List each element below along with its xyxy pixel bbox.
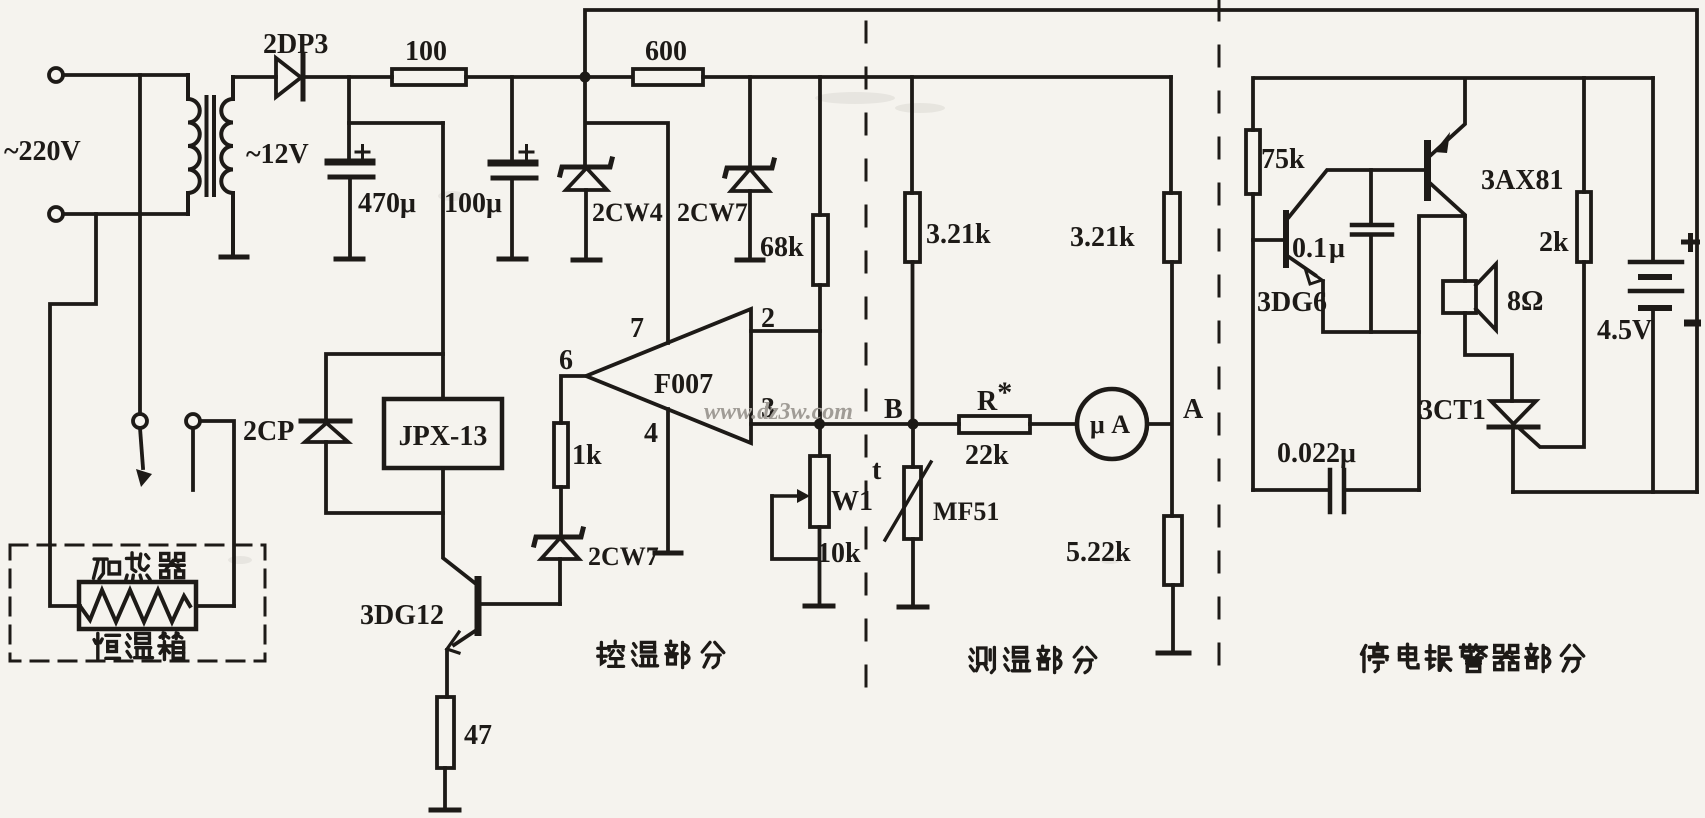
wire T1 to transformer primary top bbox=[63, 73, 188, 77]
svg-text:3DG12: 3DG12 bbox=[360, 600, 444, 631]
svg-text:2DP3: 2DP3 bbox=[263, 29, 328, 60]
wire speaker to SCR anode bbox=[1465, 313, 1512, 401]
transformer T secondary winding bbox=[221, 77, 233, 254]
capacitor C1 470u positive plate bbox=[328, 159, 372, 166]
resistor R8 3.21k body bbox=[1164, 193, 1180, 262]
pin3 output wire to node B bbox=[751, 422, 913, 426]
svg-text:4: 4 bbox=[644, 418, 658, 449]
label 恒温箱 thermostat box bbox=[94, 633, 119, 658]
thyristor D6 3CT1 body bbox=[1491, 401, 1536, 424]
resistor R6 3.21k body bbox=[905, 193, 920, 262]
pin4 supply wire bbox=[666, 409, 670, 552]
wire secondary top to diode bbox=[233, 75, 276, 79]
battery plus sign bbox=[1681, 233, 1700, 252]
label 控温部分 temperature control section bbox=[598, 641, 624, 666]
ground under 5.22k bbox=[1158, 651, 1189, 656]
zener D3 2CW7 body bbox=[731, 169, 769, 191]
wire relay to 3DG12 collector bbox=[443, 468, 476, 584]
wire 3.21k right through node A to 5.22k bbox=[1170, 262, 1174, 516]
transistor Q1 3DG12 base bar bbox=[475, 576, 482, 636]
svg-text:3CT1: 3CT1 bbox=[1419, 395, 1486, 426]
svg-text:JPX-13: JPX-13 bbox=[399, 421, 488, 452]
W1 wiper loop wire bbox=[772, 496, 819, 559]
C1 plus sign bbox=[356, 146, 369, 159]
svg-text:F007: F007 bbox=[654, 369, 713, 400]
capacitor C3 0.1u bottom plate bbox=[1352, 232, 1392, 237]
transformer core bars bbox=[207, 97, 215, 195]
relay coil line from +12V branch bbox=[441, 123, 445, 399]
svg-text:600: 600 bbox=[645, 36, 687, 67]
pin6 wire to 1k bbox=[561, 376, 586, 423]
ground under W1 bbox=[805, 604, 833, 609]
resistor R9 5.22k body bbox=[1164, 516, 1182, 585]
svg-text:3.21k: 3.21k bbox=[1070, 222, 1135, 253]
wire 68k down through pin2 node to W1 bbox=[818, 285, 822, 456]
wire T2 to transformer primary bottom bbox=[63, 212, 188, 216]
svg-text:2: 2 bbox=[761, 303, 775, 334]
svg-text:100μ: 100μ bbox=[444, 188, 502, 219]
svg-text:10k: 10k bbox=[817, 538, 861, 569]
wire battery minus to bottom rail bbox=[1651, 311, 1655, 492]
wire rail corner down to 3.21k right bbox=[1169, 77, 1173, 193]
wire node B to R* bbox=[913, 422, 959, 426]
Q2 emitter wire down bbox=[1323, 281, 1419, 332]
svg-text:3.21k: 3.21k bbox=[926, 219, 991, 250]
Q2 collector wire bbox=[1289, 170, 1424, 217]
resistor R4 47 body bbox=[437, 697, 454, 768]
wire 2CW4 to ground bbox=[584, 190, 588, 258]
op-amp U1 F007 triangle bbox=[586, 309, 751, 443]
svg-text:W1: W1 bbox=[831, 486, 873, 517]
svg-text:A: A bbox=[1183, 394, 1204, 425]
Q1 emitter with arrow bbox=[454, 629, 478, 645]
wire rail down to 3.21k left bbox=[910, 77, 914, 193]
wire C2 to ground bbox=[510, 181, 514, 257]
wire node B down to thermistor bbox=[911, 424, 915, 467]
svg-text:7: 7 bbox=[630, 313, 644, 344]
label 停电报警器部分 power failure alarm section bbox=[1361, 644, 1387, 672]
wire 100 to 100u junction bbox=[466, 75, 630, 79]
terminal T1 (~220V top) bbox=[49, 68, 63, 82]
resistor R11 2k body bbox=[1577, 192, 1591, 262]
svg-text:8Ω: 8Ω bbox=[1507, 286, 1543, 317]
speaker SP 8ohm box bbox=[1443, 281, 1476, 313]
resistor R5 1k body bbox=[554, 423, 568, 487]
diode 2DP3 bbox=[276, 58, 301, 97]
Q3 emitter from +rail with arrow bbox=[1431, 80, 1465, 155]
relay JPX-13 box bbox=[384, 399, 502, 468]
potentiometer W1 body bbox=[810, 456, 829, 527]
svg-text:t: t bbox=[872, 455, 882, 486]
svg-text:6: 6 bbox=[559, 345, 573, 376]
section divider dashed 1 bbox=[865, 22, 868, 686]
svg-text:2CW4: 2CW4 bbox=[592, 198, 663, 227]
right section +4.5V rail bbox=[1255, 76, 1653, 80]
wire rail down to 2k bbox=[1582, 78, 1586, 192]
C2 plus sign bbox=[520, 146, 533, 159]
capacitor C4 0.022u right plate bbox=[1342, 470, 1347, 512]
ground under C1 bbox=[336, 257, 363, 262]
wire 1k to zener 2CW7b bbox=[559, 487, 563, 536]
wire meter to node A bbox=[1147, 422, 1171, 426]
node B junction bbox=[908, 419, 919, 430]
ground under C2 bbox=[499, 257, 526, 262]
svg-text:~220V: ~220V bbox=[4, 136, 81, 167]
node junction at +12V rail bbox=[580, 72, 591, 83]
svg-text:0.1μ: 0.1μ bbox=[1292, 233, 1345, 264]
battery BT 4.5V plates bbox=[1630, 260, 1682, 265]
wire rail to battery plus bbox=[1651, 78, 1655, 260]
wire 2CP bottom to relay line bbox=[326, 442, 443, 513]
pin4 terminal bar bbox=[655, 551, 681, 556]
wire rail down to 68k bbox=[818, 77, 822, 215]
ground under MF51 bbox=[899, 605, 927, 610]
relay contact K1 left pole bbox=[133, 414, 147, 428]
pin2 input wire bbox=[751, 329, 820, 333]
zener D2 2CW4 cathode bar bbox=[560, 159, 612, 175]
wire 75k down to 0.022u bbox=[1251, 194, 1255, 490]
wire MF51 to ground bbox=[911, 539, 915, 605]
zener D3 2CW7 cathode bar bbox=[725, 160, 774, 176]
wire rail down to zener 2CW7 bbox=[748, 77, 752, 167]
capacitor C4 0.022u left plate bbox=[1328, 470, 1333, 512]
transistor Q3 3AX81 base bar bbox=[1424, 140, 1431, 201]
3CT1 gate wire to 2k bbox=[1519, 262, 1584, 447]
wire collector bus to C3 bbox=[1369, 170, 1373, 223]
wire diode to 100 resistor bbox=[303, 75, 392, 79]
transistor Q2 3DG6 base bar bbox=[1283, 210, 1289, 268]
svg-text:MF51: MF51 bbox=[933, 497, 999, 526]
wire rail to C2 bbox=[510, 77, 514, 163]
node junction pin3/W1 bbox=[814, 419, 825, 430]
svg-text:3AX81: 3AX81 bbox=[1481, 165, 1563, 196]
ground under 2CW7 bbox=[737, 258, 763, 263]
relay contact K1 right pole bbox=[186, 414, 200, 428]
label 加热器 heater bbox=[93, 559, 119, 579]
wire to 3DG6 base bbox=[1253, 238, 1283, 242]
Q1 base wire to zener bbox=[481, 602, 560, 606]
wire junction down to zener 2CW4 bbox=[583, 77, 587, 166]
wire 5.22k to ground bbox=[1171, 585, 1175, 651]
svg-text:470μ: 470μ bbox=[358, 188, 416, 219]
3CT1 cathode bar bbox=[1489, 425, 1538, 430]
thermostat dashed enclosure bbox=[10, 545, 265, 661]
svg-text:68k: 68k bbox=[760, 232, 804, 263]
wire branch to relay coil (JPX-13) bbox=[349, 121, 443, 125]
resistor R2 600 body bbox=[633, 69, 703, 85]
zener D2 2CW4 body bbox=[566, 168, 607, 190]
wire R* to meter bbox=[1030, 422, 1077, 426]
resistor R7 R* 22k body bbox=[959, 416, 1030, 433]
wire 2CW7 to ground bbox=[748, 191, 752, 258]
svg-text:1k: 1k bbox=[572, 440, 602, 471]
wire emitter bus down to 0.022u bbox=[1419, 216, 1465, 490]
svg-text:2k: 2k bbox=[1539, 227, 1569, 258]
diode D4 2CP cathode bar bbox=[301, 419, 350, 424]
svg-text:2CW7: 2CW7 bbox=[588, 542, 659, 571]
capacitor C3 0.1u top plate bbox=[1352, 223, 1392, 228]
wire heater right exit bbox=[196, 604, 234, 608]
wire 3CT1 cathode to bottom rail bbox=[1511, 429, 1515, 492]
resistor R3 68k body bbox=[813, 215, 828, 285]
thermistor Rt MF51 body bbox=[904, 467, 921, 539]
resistor R1 100 body bbox=[392, 69, 466, 85]
wire C3 to emitter bus bbox=[1369, 237, 1373, 332]
section divider dashed 2 bbox=[1218, 0, 1221, 686]
svg-text:100: 100 bbox=[405, 36, 447, 67]
svg-text:~12V: ~12V bbox=[246, 139, 309, 170]
svg-text:0.022μ: 0.022μ bbox=[1277, 438, 1356, 469]
svg-text:4.5V: 4.5V bbox=[1597, 315, 1652, 346]
svg-text:75k: 75k bbox=[1261, 144, 1305, 175]
zener D5 2CW7 cathode bar bbox=[534, 529, 583, 545]
resistor R10 75k body bbox=[1246, 130, 1260, 194]
terminal T2 (~220V bottom) bbox=[49, 207, 63, 221]
wire 47 to ground bbox=[443, 768, 447, 808]
wire 2CP top to relay line bbox=[326, 354, 443, 419]
heater element box bbox=[79, 582, 196, 629]
svg-text:3DG6: 3DG6 bbox=[1257, 287, 1327, 318]
wire zener to Q1 base bbox=[558, 559, 562, 604]
ground under 47 bbox=[431, 808, 459, 813]
battery minus sign bbox=[1684, 320, 1701, 327]
diode D4 2CP body bbox=[305, 423, 348, 442]
speaker horn bbox=[1476, 264, 1496, 330]
wire top rail to right edge bbox=[585, 10, 1697, 492]
wire contact to heater right bbox=[200, 421, 234, 606]
svg-text:www.dz3w.com: www.dz3w.com bbox=[704, 399, 853, 425]
svg-text:22k: 22k bbox=[965, 440, 1009, 471]
Q2 emitter with arrow bbox=[1289, 257, 1315, 275]
svg-text:47: 47 bbox=[464, 720, 492, 751]
meter M uA circle bbox=[1077, 389, 1147, 459]
heater zigzag bbox=[80, 590, 190, 622]
svg-text:5.22k: 5.22k bbox=[1066, 537, 1131, 568]
relay contact K1 movable arm bbox=[140, 428, 143, 468]
wire rail down to 75k bbox=[1251, 78, 1255, 130]
svg-text:2CP: 2CP bbox=[243, 416, 294, 447]
wire W1 to ground bbox=[818, 527, 822, 604]
ground under 2CW4 bbox=[573, 258, 600, 263]
bottom rail right section bbox=[1513, 490, 1697, 494]
wire 220V line down to relay contact K1 bbox=[138, 75, 142, 414]
wire C1 to ground bbox=[348, 180, 352, 257]
wire C4 to emitter-bus line bbox=[1344, 488, 1419, 492]
capacitor C2 100u positive plate bbox=[491, 160, 535, 167]
svg-text:μ A: μ A bbox=[1090, 410, 1130, 439]
wire rail to C1 bbox=[347, 77, 351, 162]
zener D5 2CW7 body bbox=[541, 538, 579, 559]
Q3 collector wire to speaker bbox=[1431, 184, 1465, 281]
label 测温部分 temperature measuring section bbox=[970, 647, 995, 672]
wire 75k line to C4 bbox=[1253, 488, 1330, 492]
wire 3.21k to node B bbox=[911, 262, 915, 424]
pin7 supply wire bbox=[586, 123, 668, 343]
thermistor slash bbox=[885, 462, 931, 540]
svg-text:2CW7: 2CW7 bbox=[677, 198, 748, 227]
transformer T primary winding bbox=[188, 75, 200, 214]
svg-text:B: B bbox=[884, 394, 903, 425]
capacitor C1 470u negative plate bbox=[330, 175, 373, 180]
capacitor C2 100u negative plate bbox=[493, 176, 536, 181]
wire 220V bottom line to heater left bbox=[50, 214, 96, 606]
relay contact stationary stub bbox=[191, 428, 195, 490]
ground under secondary bbox=[221, 255, 247, 260]
wire 600 onward rail bbox=[703, 75, 1171, 79]
W1 wiper arrow bbox=[772, 494, 798, 497]
